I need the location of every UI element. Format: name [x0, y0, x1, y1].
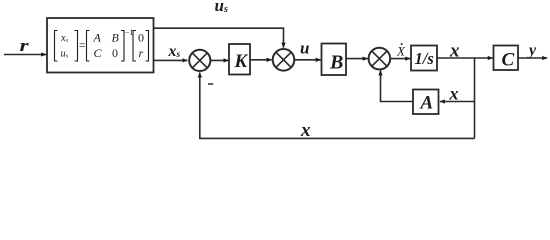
- block A: [413, 90, 439, 115]
- summing junction J1: [189, 50, 210, 71]
- block B: [322, 44, 347, 76]
- wire x branch down: [474, 58, 476, 138]
- svg-text:us: us: [215, 0, 228, 15]
- svg-text:=: =: [79, 40, 86, 52]
- wire J3 to integrator: [390, 58, 410, 60]
- wire x_s from block to sum J1: [154, 59, 188, 61]
- bracket vec2 open: [133, 31, 136, 62]
- summing junction J3: [369, 48, 391, 70]
- svg-text:A: A: [420, 93, 434, 114]
- svg-text:u: u: [300, 39, 309, 58]
- bracket mat open: [87, 31, 90, 62]
- bracket vec1 open: [55, 31, 58, 62]
- svg-text:B: B: [329, 52, 343, 74]
- block C: [494, 46, 519, 71]
- wire x from 1/s to C: [437, 57, 493, 59]
- svg-text:0: 0: [112, 46, 118, 60]
- wire B to J3: [346, 58, 368, 60]
- svg-text:−1: −1: [125, 28, 134, 37]
- svg-text:C: C: [94, 46, 103, 60]
- svg-text:x: x: [449, 84, 459, 104]
- wire A to J3: [381, 70, 414, 101]
- svg-text:x: x: [449, 41, 460, 62]
- svg-text:0: 0: [138, 31, 144, 45]
- block U1 matrix-equation feedforward block: [47, 18, 154, 73]
- svg-text:r: r: [20, 37, 30, 55]
- wire J2 to B: [294, 59, 320, 61]
- wire J1 to K: [210, 59, 228, 61]
- bracket vec1 close: [75, 31, 78, 62]
- svg-text:A: A: [93, 31, 102, 45]
- bracket vec2 close: [146, 31, 149, 62]
- svg-text:us: us: [61, 49, 69, 60]
- label minus at J1: [208, 83, 213, 85]
- wire u_s from block to sum J2: [154, 28, 284, 47]
- svg-text:B: B: [112, 31, 120, 45]
- matrix equation inside block U1: [55, 31, 149, 62]
- svg-text:K: K: [234, 51, 249, 72]
- svg-text:x: x: [300, 120, 311, 141]
- wire output y: [518, 57, 547, 59]
- wire input r: [4, 54, 46, 56]
- bracket mat close: [121, 31, 124, 62]
- wire x into A: [440, 101, 475, 103]
- wire K to J2: [250, 59, 272, 61]
- wire feedback x to J1: [200, 73, 475, 139]
- svg-text:C: C: [502, 50, 515, 71]
- svg-text:xs: xs: [60, 33, 69, 44]
- summing junction J2: [273, 49, 295, 71]
- svg-text:y: y: [527, 42, 537, 59]
- block K: [229, 44, 250, 75]
- svg-text:1/s: 1/s: [415, 49, 434, 68]
- svg-text:xs: xs: [168, 43, 181, 60]
- block 1/s integrator: [411, 46, 437, 71]
- svg-text:r: r: [139, 46, 144, 60]
- svg-text:X: X: [396, 44, 406, 59]
